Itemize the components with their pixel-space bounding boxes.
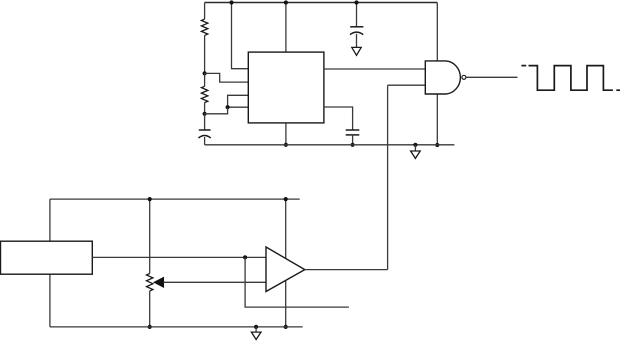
potentiometer R3 wiper arrow [154,278,163,287]
IC U1 [248,52,324,123]
wire lower left vertical [49,199,51,327]
node bottom rail at IC pin [284,143,288,147]
capacitor C3 [346,130,360,135]
wire feedback tap down and right [245,257,349,307]
wire R2 to node B [204,103,206,114]
wire top rail right corner down to NAND [436,3,438,61]
node bottom rail at C3 [351,143,355,147]
wire box output to op-amp input [92,256,266,258]
wire IC output to NAND input A [324,68,425,70]
wire left rail upper segment [204,3,206,20]
wire NAND input B [388,84,426,86]
wire IC pin4 to node C [228,106,249,108]
wire IC pin3 to node C [228,95,249,107]
node lower bottom rail at 285 [284,325,288,329]
wire node C to node B [205,107,228,114]
op-amp U4 [266,247,305,292]
wire C1 to bottom rail corner [204,137,206,145]
wire top rail to potentiometer [149,199,151,273]
node lower bottom rail at pot [148,325,152,329]
wire NAND bottom to rail [436,94,438,145]
wire lower mid vertical upper part [285,199,287,258]
wire C3 to bottom rail [352,135,354,145]
node A junction [203,71,207,75]
node lower top rail at 285 [284,197,288,201]
node top rail at 231 [229,0,233,4]
wire vertical top rail to IC pin1 [232,3,249,69]
wire node A stair to IC pin2 [205,73,249,82]
box U3 transducer [1,241,93,274]
wire lower top rail [50,198,300,200]
output waveform [521,66,620,91]
wire IC pin to C3 [324,107,353,130]
wire top supply rail [205,2,438,4]
wire node A to R2 [204,73,206,86]
wire lower bottom rail [50,326,303,328]
node lower top rail at pot [148,197,152,201]
ground top circuit [411,143,421,159]
node feedback tap [243,255,247,259]
ground arrow below C2 [352,47,361,55]
wire top rail to C2 [356,3,358,27]
capacitor C1 polarized [199,130,211,138]
wire bottom rail of top circuit [205,144,455,146]
wire lower mid vertical lower part [285,281,287,327]
ground lower circuit [251,325,261,340]
wire NAND output [466,76,518,78]
nand gate U2 [425,61,460,94]
nand gate U2 bubble [462,75,466,79]
node bottom rail at NAND [435,143,439,147]
resistor R2 [201,86,207,102]
node top rail at C2 [354,0,358,4]
wire IC top pin to rail [285,3,287,53]
wire op-amp output [305,269,388,271]
wire C2 to ground arrow [356,34,358,48]
wire op-amp output feedback riser [387,85,389,269]
node B junction [203,112,207,116]
capacitor C2 polarized [350,27,363,35]
wire IC bottom pin to rail [285,123,287,145]
resistor R1 [201,19,207,35]
node C junction [226,105,230,109]
wire R1 to node A [204,35,206,73]
potentiometer R3 [147,274,153,292]
wire pot to bottom rail [149,291,151,327]
wire wiper to op-amp input [163,281,266,283]
node top rail at IC pin [284,0,288,4]
wire node B to C1 [204,114,206,130]
